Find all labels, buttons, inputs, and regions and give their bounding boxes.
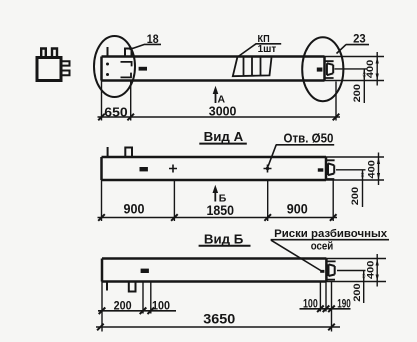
cross-section end view body [37,58,61,81]
view A hole cross 2 [264,165,272,173]
KP embedded channel trapezoid [233,58,272,77]
view B dim ticks right [317,306,335,313]
view A dash mark [140,167,148,171]
view A left tick [107,147,109,157]
view A riska mark [318,168,324,171]
dim 400 view A arrows [377,157,380,180]
svg-text:1шт: 1шт [258,44,277,55]
cross-section lug right [52,49,57,58]
svg-text:Риски разбивочных: Риски разбивочных [274,228,388,240]
view B tenon lines [326,261,335,279]
otv label underline and leader [268,145,334,167]
svg-text:КП: КП [258,34,270,45]
cross-section lug left [41,49,46,58]
beam top view outline [102,57,325,81]
label 18 leader and underline [130,44,162,49]
svg-text:900: 900 [287,201,308,217]
top view recess corner bracket lower [121,73,132,78]
svg-text:3000: 3000 [209,104,237,118]
view B bottom extension verticals [102,282,332,332]
detail circle 23 [302,37,343,101]
view B bottom dim line left [98,310,176,312]
svg-text:100: 100 [303,297,318,311]
dim 200 top view line [363,69,365,103]
view B riska mark [320,270,324,273]
top view anchor dot upper [106,63,109,66]
cross-section side tab lower [62,71,70,76]
VIEW B beam outline [102,259,326,282]
dim 400 top view arrows [376,57,379,81]
VIEW B title leader [271,240,389,271]
view B right edge extensions [326,259,386,282]
view A direction arrow [215,90,217,103]
top view embedded dash mark [139,67,147,71]
view A bottom dim line [98,217,338,219]
view A dim ticks [98,214,336,221]
detail circle 18 [94,36,135,97]
dim 200 view B extension [337,270,366,272]
view B tenon wedge [329,264,335,276]
svg-text:190: 190 [337,297,351,311]
dim 3650 line [96,326,340,328]
label 23 underline and leader [337,45,370,54]
dim 200 view B line [363,271,365,304]
dim 3000 extension verticals [102,81,337,121]
svg-text:3650: 3650 [203,310,235,326]
view B bottom tick [106,282,108,291]
dim 200 view A line [362,170,364,207]
KP label fraction bar and leader [238,44,282,57]
svg-text:900: 900 [124,201,145,217]
view A right edge extensions [326,157,384,180]
dim 200 top view extension [335,68,368,70]
dim 200 view A extension [336,169,366,171]
dim 400 top view line [376,52,378,86]
svg-text:650: 650 [104,106,127,120]
view B bottom lug [129,282,136,292]
svg-text:200: 200 [114,298,132,312]
dim 400 view B arrows [376,259,379,282]
svg-text:400: 400 [365,261,376,279]
view B dash mark [141,269,149,273]
dim 200 view A arrows [361,170,364,180]
view A bottom extension verticals [102,180,334,221]
top view left lug [125,49,132,57]
cross-section side tab upper [62,61,70,65]
view B bottom dim line right [300,308,351,310]
svg-text:23: 23 [353,32,366,46]
view A tenon lines [326,160,335,179]
view A tenon wedge [328,163,334,175]
svg-text:Отв. Ø50: Отв. Ø50 [284,132,334,146]
dim 3000 line [98,116,341,118]
svg-text:200: 200 [352,84,363,102]
view B dim ticks left [99,308,154,315]
svg-text:200: 200 [350,187,361,205]
svg-text:осей: осей [311,240,334,252]
view A left lug [125,148,132,158]
top view tenon wedge [327,63,333,75]
top view right edge extension lines [325,57,385,81]
dim ticks 3000 [98,114,339,121]
top view right tenon lines [325,61,334,78]
dim 3650 ticks [97,324,335,331]
dim 400 view B line [376,254,378,287]
view A hole cross 1 [169,165,177,173]
svg-text:100: 100 [152,298,170,312]
svg-text:400: 400 [366,160,377,178]
svg-text:400: 400 [365,60,376,78]
top view left tick [107,47,109,57]
svg-text:Вид А: Вид А [204,129,244,144]
top view anchor dot lower [106,73,109,76]
svg-text:Вид Б: Вид Б [204,232,244,247]
view B direction arrow [214,189,216,202]
svg-text:18: 18 [147,32,159,46]
dim 200 view B arrows [362,271,365,282]
svg-text:1850: 1850 [207,202,235,218]
svg-text:200: 200 [352,283,363,301]
top view riska mark at right [317,68,323,72]
dim 200 top view arrows [363,69,366,81]
top view recess corner bracket upper [121,62,132,67]
VIEW A beam outline [102,157,327,180]
dim 400 view A line [378,153,380,186]
